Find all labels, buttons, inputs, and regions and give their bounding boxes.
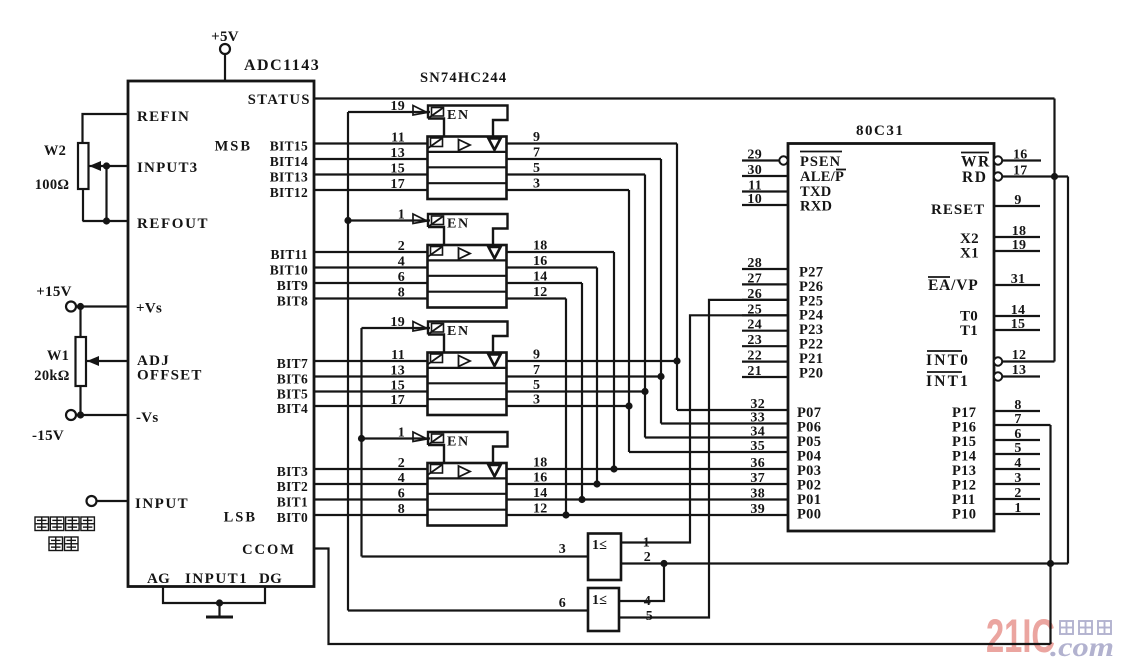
svg-text:-15V: -15V	[32, 428, 64, 444]
svg-text:BIT15: BIT15	[270, 139, 308, 154]
svg-text:CCOM: CCOM	[242, 542, 296, 558]
wire branch down to gate G2 pin 4	[619, 564, 664, 602]
pin label PSEN with overbar	[800, 152, 842, 171]
wire BIT5 ADC to buffer	[314, 390, 428, 392]
wire BIT11 ADC to buffer	[314, 251, 428, 253]
wire BIT2 ADC to buffer	[314, 483, 428, 485]
potentiometer W2 100ohm	[78, 143, 101, 221]
pin label WR with overbar	[961, 153, 991, 171]
svg-text:4: 4	[1014, 456, 1021, 471]
wire BIT10 ADC to buffer	[314, 266, 428, 268]
svg-text:+5V: +5V	[211, 29, 239, 45]
svg-text:EN: EN	[447, 108, 470, 123]
wire BIT7 ADC to buffer	[314, 360, 428, 362]
svg-text:13: 13	[1012, 363, 1027, 378]
svg-text:REFIN: REFIN	[137, 109, 190, 125]
wire buffered BIT11 from U2B pin down	[507, 252, 615, 469]
svg-text:EN: EN	[447, 217, 470, 232]
svg-text:17: 17	[1013, 164, 1028, 179]
wire BIT9 ADC to buffer	[314, 282, 428, 284]
pin 1 P10 stub	[952, 501, 1040, 523]
microcontroller U4 80C31 box	[788, 144, 994, 532]
wire BIT1 ADC to buffer	[314, 498, 428, 500]
junction dot on REFOUT wire	[103, 217, 110, 224]
junction dot enable U3B	[358, 435, 365, 442]
svg-text:BIT6: BIT6	[277, 372, 308, 387]
bubble on INT0 pin	[994, 357, 1002, 365]
svg-text:1: 1	[1014, 501, 1021, 516]
svg-text:12: 12	[1012, 348, 1027, 363]
pin label ALE/P with overbar	[800, 169, 846, 185]
junction dot BIT12/BIT4 pair	[625, 402, 632, 409]
bubble on WR pin	[994, 156, 1002, 164]
+15V supply terminal	[36, 284, 76, 312]
wire REFOUT	[83, 220, 129, 222]
wire P24 down to gate G1 pin 1	[621, 315, 788, 542]
svg-text:16: 16	[1013, 148, 1028, 163]
svg-text:15: 15	[1011, 317, 1026, 332]
buffer U3A (SN74HC244 half) symbol	[413, 322, 508, 416]
svg-text:X1: X1	[960, 246, 979, 262]
svg-text:19: 19	[1012, 238, 1027, 253]
junction dot on INPUT3 wire	[103, 162, 110, 169]
wire U3A output row BIT5	[507, 390, 646, 392]
svg-text:18: 18	[1012, 224, 1027, 239]
pin 14 T0 stub	[960, 303, 1040, 325]
svg-text:8: 8	[1014, 398, 1021, 413]
pin 9 RESET stub	[931, 193, 1040, 218]
pin 31 EA/VP stub with overbar label	[928, 272, 1040, 294]
pin label ADJ OFFSET	[137, 353, 203, 384]
svg-text:4: 4	[644, 594, 651, 609]
svg-text:PSEN: PSEN	[800, 154, 841, 170]
pin 10 RXD stub	[742, 192, 788, 207]
bubble on INT1 pin	[994, 372, 1002, 380]
svg-text:5: 5	[1014, 441, 1021, 456]
wire enable bus for U2A/U2B (from gate G2 output)	[348, 112, 588, 611]
svg-text:2: 2	[644, 550, 651, 565]
pin 3 P12 stub	[952, 471, 1040, 494]
svg-text:BIT12: BIT12	[270, 185, 308, 200]
wire -Vs	[76, 414, 128, 416]
svg-text:2: 2	[1014, 486, 1021, 501]
wire P16 down to gate output line and CCOM bottom line	[1049, 425, 1051, 644]
svg-text:+15V: +15V	[36, 284, 72, 300]
svg-text:P00: P00	[797, 507, 821, 523]
potentiometer W1 20kohm	[76, 337, 100, 415]
wire INPUT	[97, 500, 129, 502]
wire gate G1 output pin 2 to right bus	[621, 550, 1068, 565]
svg-text:BIT5: BIT5	[277, 387, 308, 402]
wire BIT3 ADC to buffer	[314, 468, 428, 470]
svg-text:BIT2: BIT2	[277, 479, 308, 494]
svg-text:24: 24	[747, 318, 762, 333]
wire BIT4 ADC to buffer	[314, 405, 428, 407]
wire U3A output row BIT7	[507, 360, 678, 362]
wire +Vs branch to W1 top	[79, 307, 81, 338]
buffer U2A (SN74HC244 half) symbol	[413, 106, 508, 200]
svg-text:33: 33	[750, 411, 765, 426]
gate G2 (OR 1<=) box	[588, 588, 619, 631]
junction dot BIT14/BIT6 pair	[657, 373, 664, 380]
wire P25 down to gate G2 pin 5	[619, 300, 788, 618]
pin 24 P23 stub	[742, 318, 823, 338]
svg-text:STATUS: STATUS	[248, 92, 311, 108]
junction dot on +Vs wire	[77, 303, 84, 310]
wire BIT15 ADC to buffer	[314, 142, 428, 144]
svg-text:MSB: MSB	[215, 139, 252, 155]
pin 11 TXD stub	[742, 179, 788, 194]
wire U3B output row BIT3 to P03	[507, 468, 789, 470]
junction dot on -Vs wire	[77, 411, 84, 418]
wire buffered BIT10 from U2B pin down	[507, 268, 598, 485]
pin 18 X2 stub	[960, 224, 1040, 247]
svg-text:28: 28	[747, 256, 762, 271]
svg-text:BIT0: BIT0	[277, 510, 308, 525]
svg-text:REFOUT: REFOUT	[137, 216, 209, 232]
svg-text:INPUT: INPUT	[135, 496, 189, 512]
junction dot STATUS/RD	[1051, 173, 1058, 180]
pin 26 P25 stub	[742, 287, 823, 309]
bubble on PSEN pin	[779, 156, 787, 164]
wire BIT12 ADC to buffer	[314, 189, 428, 191]
pin 2 P11 stub	[952, 486, 1040, 508]
bubble on RD pin	[994, 172, 1002, 180]
svg-text:WR: WR	[961, 154, 991, 171]
junction dot gate G1 output branch	[660, 560, 667, 567]
wire enable stub U2B	[348, 219, 430, 221]
svg-text:35: 35	[750, 439, 765, 454]
svg-text:1≤: 1≤	[592, 593, 607, 608]
pin 25 P24 stub	[742, 302, 823, 323]
svg-text:37: 37	[750, 471, 765, 486]
pin 21 P20 stub	[742, 364, 823, 381]
svg-text:AG: AG	[147, 571, 170, 587]
-15V supply terminal	[32, 410, 76, 444]
wire INPUT3 to W2 wiper	[98, 165, 128, 167]
svg-text:29: 29	[747, 148, 762, 163]
svg-text:39: 39	[750, 502, 765, 517]
svg-text:9: 9	[1014, 193, 1021, 208]
wire U3A output row BIT4	[507, 405, 630, 407]
junction dot BIT9/BIT1 pair	[578, 496, 585, 503]
svg-text:SN74HC244: SN74HC244	[420, 70, 507, 86]
svg-text:W2: W2	[44, 143, 66, 159]
svg-text:31: 31	[1011, 272, 1026, 287]
junction dot BIT10/BIT2 pair	[593, 480, 600, 487]
pin 30 ALE/P stub	[742, 163, 788, 178]
wire BIT14 ADC to buffer	[314, 158, 428, 160]
svg-text:INT0: INT0	[926, 352, 970, 369]
pin 22 P21 stub	[742, 349, 823, 367]
junction dot BIT15/BIT7 pair	[673, 357, 680, 364]
svg-text:BIT13: BIT13	[270, 170, 308, 185]
svg-text:14: 14	[1011, 303, 1026, 318]
svg-text:3: 3	[559, 542, 566, 557]
svg-text:27: 27	[747, 271, 762, 286]
svg-text:BIT10: BIT10	[270, 263, 308, 278]
wire buffered BIT8 from U2B pin down	[507, 299, 567, 516]
wire BIT8 ADC to buffer	[314, 297, 428, 299]
pin 35 P04 number label	[750, 439, 821, 465]
label chinese: analog signal input (pseudo glyphs)	[35, 517, 94, 551]
svg-text:BIT11: BIT11	[270, 247, 308, 262]
pin 12 INT0 stub (from STATUS)	[926, 348, 1055, 369]
pin 36 P03 number label	[750, 456, 821, 479]
svg-text:ALE/P: ALE/P	[800, 169, 844, 185]
svg-text:+Vs: +Vs	[136, 301, 162, 317]
watermark 21IC.com logo	[986, 609, 1114, 662]
svg-text:1≤: 1≤	[592, 538, 607, 553]
wire wiper branch down to REFOUT	[105, 166, 107, 221]
pin 29 PSEN stub	[742, 148, 788, 163]
svg-text:30: 30	[747, 163, 762, 178]
svg-text:.com: .com	[1050, 632, 1114, 662]
wire RD bus down to gate output line	[1067, 177, 1069, 564]
svg-text:EN: EN	[447, 435, 470, 450]
svg-text:5: 5	[646, 609, 653, 624]
pin 13 INT1 stub	[926, 363, 1040, 390]
svg-text:INPUT1: INPUT1	[185, 571, 248, 587]
wire buffered BIT12 from U2A pin to P04	[507, 190, 789, 452]
pin 4 P13 stub	[952, 456, 1040, 479]
wire AG/DG ground bracket	[163, 587, 265, 604]
svg-text:BIT3: BIT3	[277, 464, 308, 479]
svg-text:INT1: INT1	[926, 373, 970, 390]
svg-text:ADC1143: ADC1143	[244, 57, 320, 74]
svg-text:BIT1: BIT1	[277, 495, 308, 510]
wire enable stub U3B	[362, 437, 431, 439]
svg-text:3: 3	[1014, 471, 1021, 486]
svg-text:36: 36	[750, 456, 765, 471]
svg-text:INPUT3: INPUT3	[137, 160, 198, 176]
ADC converter U1 ADC1143 box	[128, 81, 314, 587]
pin 7 P16 stub	[952, 412, 1051, 436]
svg-text:RESET: RESET	[931, 202, 985, 218]
pin 32 P07 number label	[750, 397, 821, 421]
wire BIT0 ADC to buffer	[314, 514, 428, 516]
wire buffered BIT9 from U2B pin down	[507, 283, 583, 500]
junction dot ground bracket	[216, 599, 223, 606]
svg-text:38: 38	[750, 487, 765, 502]
svg-text:BIT9: BIT9	[277, 278, 308, 293]
svg-text:6: 6	[559, 596, 566, 611]
svg-text:1: 1	[643, 536, 650, 551]
wire U3B output row BIT2 to P02	[507, 483, 789, 485]
ground symbol	[206, 603, 233, 617]
svg-text:LSB: LSB	[224, 510, 257, 526]
junction dot enable U2B	[344, 217, 351, 224]
svg-text:21IC: 21IC	[986, 609, 1055, 662]
svg-text:BIT14: BIT14	[270, 154, 308, 169]
svg-text:BIT7: BIT7	[277, 356, 308, 371]
svg-text:20kΩ: 20kΩ	[34, 368, 69, 384]
pin 39 P00 number label	[750, 502, 821, 523]
pin 19 X1 stub	[960, 238, 1040, 262]
pin 16 WR stub	[1002, 148, 1041, 163]
wire CCOM down and along bottom	[314, 549, 1051, 645]
buffer U2B (SN74HC244 half) symbol	[413, 214, 508, 308]
wire BIT13 ADC to buffer	[314, 173, 428, 175]
svg-text:W1: W1	[47, 348, 69, 364]
junction dot BIT11/BIT3 pair	[610, 465, 617, 472]
svg-text:P10: P10	[952, 507, 976, 523]
+5V power terminal	[211, 29, 239, 81]
pin 6 P15 stub	[952, 427, 1040, 450]
svg-text:6: 6	[1014, 427, 1021, 442]
junction dot BIT8/BIT0 pair	[562, 511, 569, 518]
wire ADJ OFFSET to W1 wiper	[99, 360, 128, 362]
svg-text:22: 22	[747, 349, 762, 364]
junction dot BIT13/BIT5 pair	[641, 388, 648, 395]
wire U3B output row BIT0 to P00	[507, 514, 789, 516]
INPUT analog terminal	[87, 496, 97, 506]
svg-text:P20: P20	[799, 365, 823, 381]
svg-text:DG: DG	[259, 571, 282, 587]
svg-text:BIT8: BIT8	[277, 294, 308, 309]
svg-text:-Vs: -Vs	[136, 410, 159, 426]
svg-text:BIT4: BIT4	[277, 401, 308, 416]
svg-text:RD: RD	[962, 169, 987, 186]
wire buffered BIT13 from U2A pin to P05	[507, 175, 789, 438]
wire U3B output row BIT1 to P01	[507, 498, 789, 500]
svg-text:34: 34	[750, 425, 765, 440]
pin 33 P06 number label	[750, 411, 821, 436]
gate G1 (OR 1<=) box	[588, 534, 621, 581]
wire BIT6 ADC to buffer	[314, 375, 428, 377]
wire STATUS to INT0	[314, 99, 1055, 362]
svg-text:21: 21	[747, 364, 762, 379]
pin 28 P27 stub	[742, 256, 823, 281]
wire buffered BIT14 from U2A pin to P06	[507, 159, 789, 424]
svg-text:EA/VP: EA/VP	[928, 277, 979, 294]
pin 5 P14 stub	[952, 441, 1040, 465]
pin 15 T1 stub	[960, 317, 1040, 339]
svg-text:T1: T1	[960, 323, 978, 339]
svg-text:OFFSET: OFFSET	[137, 368, 203, 384]
junction dot P16/gate line	[1047, 560, 1054, 567]
svg-text:EN: EN	[447, 324, 470, 339]
pin 8 P17 stub	[952, 398, 1040, 421]
wire +Vs	[76, 305, 128, 307]
pin 38 P01 number label	[750, 487, 821, 509]
wire REFIN to W2 top	[83, 114, 129, 143]
wire enable bus for U3A/U3B (from gate G1 output)	[362, 328, 589, 557]
svg-text:7: 7	[1014, 412, 1021, 427]
pin 37 P02 number label	[750, 471, 821, 494]
pin 17 RD stub to right bus	[1002, 164, 1068, 179]
svg-text:100Ω: 100Ω	[35, 177, 70, 193]
pin 27 P26 stub	[742, 271, 823, 295]
pin 34 P05 number label	[750, 425, 821, 451]
svg-text:23: 23	[747, 333, 762, 348]
wire buffered BIT15 from U2A pin to P07	[507, 144, 789, 411]
wire U3A output row BIT6	[507, 375, 662, 377]
buffer U3B (SN74HC244 half) symbol	[413, 432, 508, 526]
pin labels AG INPUT1 DG	[147, 571, 282, 587]
pin 23 P22 stub	[742, 333, 823, 352]
svg-text:80C31: 80C31	[856, 123, 904, 139]
svg-text:RXD: RXD	[800, 199, 832, 215]
svg-text:10: 10	[747, 192, 762, 207]
